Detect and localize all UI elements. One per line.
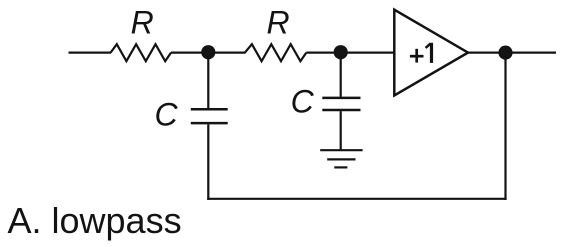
wire node 2 down to C2 [340,53,342,97]
resistor R2 [245,44,306,61]
wire C1 down to feedback [207,124,209,199]
wire op-amp output to node 3 [469,51,507,53]
wire node 1 down to C1 [207,53,209,109]
wire output right [506,51,557,53]
wire input left [69,51,112,53]
capacitor C2 [322,98,360,110]
svg-text:R: R [131,5,154,41]
op-amp gain label +1 [410,43,432,63]
node OUT junction dot [498,46,512,60]
capacitor C1 [191,109,228,123]
svg-text:A. lowpass: A. lowpass [8,200,182,241]
op-amp U1 triangle [394,10,468,96]
resistor R1 [111,44,171,61]
wire C2 down to ground [340,111,342,150]
wire R1 to node 1 [171,51,209,53]
node A junction dot [201,45,215,59]
wire node 2 to op-amp input [341,51,394,53]
wire feedback right vertical [504,53,506,200]
wire feedback bottom [207,198,506,200]
svg-text:R: R [266,5,289,41]
wire R2 to node 2 [306,51,341,53]
wire node 1 to R2 [208,51,246,53]
ground [320,150,362,167]
svg-text:C: C [291,83,315,119]
svg-text:C: C [154,96,178,132]
node B junction dot [334,45,348,59]
